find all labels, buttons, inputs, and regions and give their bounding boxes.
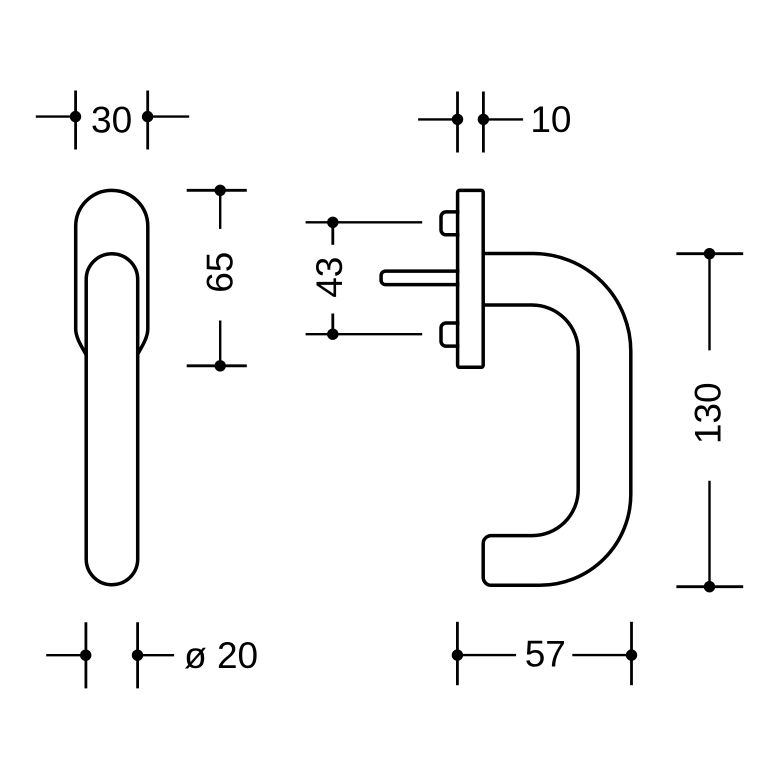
- dim 43 extension lines: [306, 221, 423, 223]
- dim 65 dots: [215, 185, 226, 196]
- bottom screw boss: [441, 323, 460, 346]
- svg-text:65: 65: [200, 252, 241, 293]
- dim 65 lines: [219, 190, 221, 229]
- dim 43 dots: [327, 217, 338, 228]
- dim 130 dots: [704, 248, 715, 259]
- dim 20 ticks: [85, 622, 88, 688]
- dim 10 ticks: [456, 92, 459, 153]
- dim 130 lines: [708, 254, 710, 351]
- svg-text:ø 20: ø 20: [184, 635, 258, 676]
- svg-text:57: 57: [525, 634, 566, 675]
- spindle shaft: [381, 271, 459, 285]
- handle lever (side outline): [483, 254, 631, 586]
- rosette plate (side): [458, 190, 484, 367]
- dim 57 dots: [452, 649, 463, 660]
- handle front grip (inner stadium): [86, 254, 138, 585]
- svg-text:10: 10: [530, 99, 571, 140]
- dim 57 lines: [457, 654, 516, 656]
- dim 57 ticks: [456, 622, 459, 685]
- dim 65 ticks: [187, 189, 247, 192]
- top screw boss: [441, 212, 460, 235]
- dim 130 ticks: [676, 252, 743, 255]
- dim 10 dots: [452, 114, 463, 125]
- svg-text:43: 43: [309, 257, 350, 298]
- dim 30 dots: [70, 111, 81, 122]
- dim 43 ticks: [331, 222, 334, 245]
- handle front outer contour (escutcheon): [76, 190, 148, 354]
- dim 30 ticks: [74, 91, 77, 150]
- dim 20 lines: [46, 654, 85, 656]
- svg-text:30: 30: [91, 100, 132, 141]
- dim 20 dots: [80, 650, 91, 661]
- dim 10 lines: [418, 118, 457, 120]
- dim 30 lines: [36, 115, 76, 117]
- svg-text:130: 130: [687, 382, 728, 444]
